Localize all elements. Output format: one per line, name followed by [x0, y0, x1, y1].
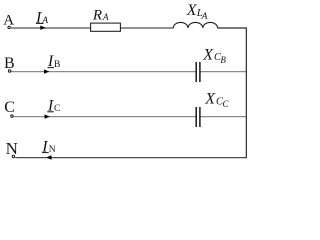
svg-text:C: C	[223, 99, 230, 109]
svg-text:B: B	[4, 55, 15, 72]
svg-text:X: X	[202, 46, 214, 63]
svg-text:A: A	[102, 12, 109, 22]
svg-text:A: A	[3, 13, 14, 29]
svg-text:N: N	[49, 145, 56, 155]
svg-text:B: B	[220, 55, 226, 65]
svg-text:X: X	[204, 91, 216, 108]
svg-text:B: B	[54, 60, 60, 70]
svg-text:A: A	[201, 12, 208, 22]
svg-text:C: C	[4, 99, 15, 116]
svg-text:I: I	[35, 10, 42, 27]
svg-text:N: N	[6, 139, 18, 158]
svg-text:A: A	[41, 16, 48, 26]
svg-text:R: R	[92, 8, 102, 24]
svg-text:C: C	[54, 104, 60, 114]
